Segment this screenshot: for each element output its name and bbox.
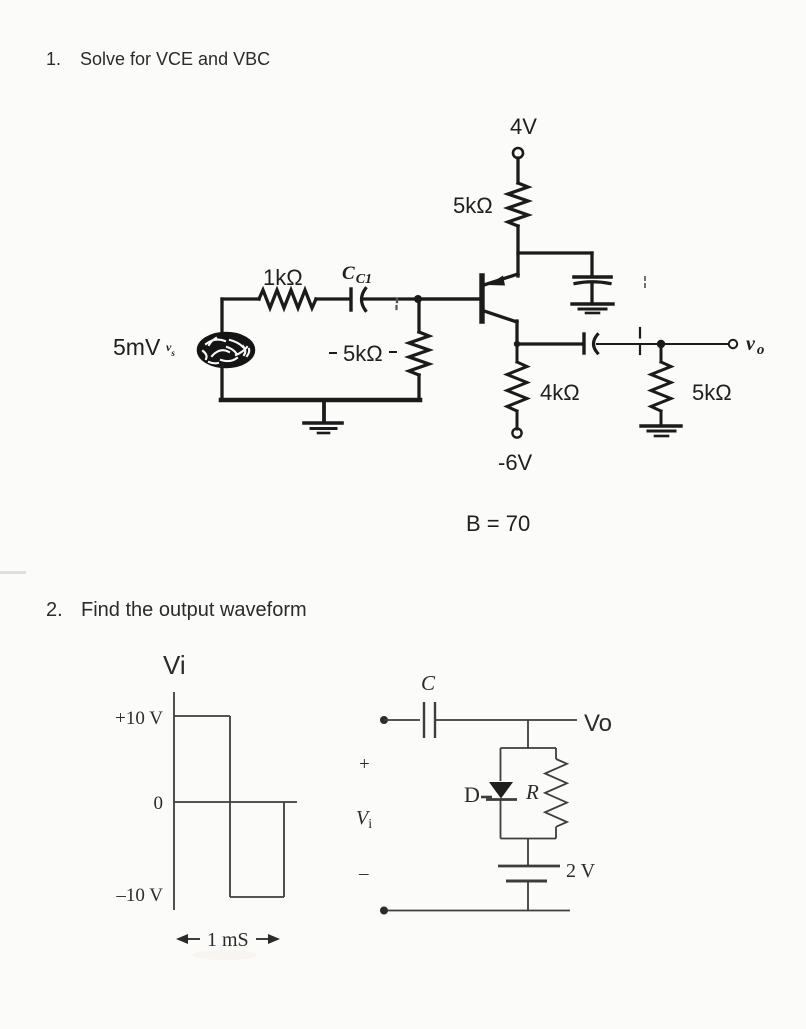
box left (diode branch) <box>500 748 502 781</box>
wire emitter to coupling cap <box>517 342 583 345</box>
arrow right <box>256 938 276 940</box>
axis zero line <box>174 801 297 803</box>
wire bottom rail <box>384 910 570 912</box>
svg-text:R: R <box>525 780 539 804</box>
junction emitter node <box>514 341 520 347</box>
svg-text:4V: 4V <box>510 114 537 139</box>
wire down to bypass cap <box>590 253 593 276</box>
faint smudge bottom <box>193 950 257 960</box>
wire cap CC1 to base node <box>364 297 482 300</box>
ground below bypass cap <box>572 302 613 305</box>
capacitor CE bypass top plate <box>574 275 611 279</box>
wire battery to rail <box>527 881 529 911</box>
capacitor CE bypass bottom plate <box>575 282 610 284</box>
box bottom <box>501 838 557 840</box>
capacitor CC1 left plate <box>349 289 352 310</box>
waveform +10 segment <box>174 715 230 717</box>
wire bottom rail <box>221 398 420 403</box>
svg-text:5mV: 5mV <box>113 334 161 360</box>
svg-text:1 mS: 1 mS <box>207 929 249 951</box>
junction base node <box>414 295 422 303</box>
capacitor CC2 left plate <box>582 334 585 353</box>
svg-text:4kΩ: 4kΩ <box>540 380 580 405</box>
wire box to battery <box>527 839 529 866</box>
waveform -10 segment <box>230 896 284 898</box>
terminal -6V <box>512 428 521 437</box>
svg-text:1.Solve for VCE and VBC: 1.Solve for VCE and VBC <box>46 49 270 69</box>
resistor R zigzag <box>545 759 567 827</box>
transistor Q1 base bar <box>479 276 484 321</box>
resistor RS 1k (horizontal) <box>259 290 316 308</box>
box top <box>501 747 557 749</box>
transistor Q1 collector diagonal <box>484 274 518 285</box>
svg-text:D: D <box>464 782 480 807</box>
wire cap to ground <box>590 284 593 303</box>
svg-text:5kΩ: 5kΩ <box>692 380 732 405</box>
wire stem to box <box>527 720 529 748</box>
capacitor C left plate <box>423 702 425 738</box>
battery 2V long plate <box>498 865 560 868</box>
source VS scribbled ellipse <box>198 333 255 368</box>
svg-text:Vi: Vi <box>163 650 186 680</box>
faint scan streak left edge <box>0 571 26 574</box>
capacitor CC2 right plate (curved) <box>594 335 598 354</box>
diode D cathode bar <box>486 798 517 801</box>
artifact dots <box>396 299 398 302</box>
svg-text:+10 V: +10 V <box>115 708 163 729</box>
diode D triangle <box>489 782 513 799</box>
ground input loop <box>304 421 342 425</box>
resistor RL 5k <box>660 344 663 362</box>
svg-text:5kΩ: 5kΩ <box>343 341 383 366</box>
wire input to cap <box>384 719 420 721</box>
svg-text:-6V: -6V <box>498 450 533 475</box>
box right with resistor R <box>555 748 557 759</box>
resistor RC 5k (vertical) <box>508 183 528 226</box>
terminal 4V <box>513 148 523 158</box>
transistor Q1 emitter diagonal <box>484 311 517 322</box>
resistor RE 4k <box>516 344 519 362</box>
dash artifacts around label <box>330 352 336 354</box>
wire collector node to bypass cap <box>518 251 592 254</box>
dashed plate artifact <box>639 328 641 338</box>
resistor RB 5k (vertical shunt) <box>417 299 420 332</box>
svg-text:+: + <box>359 754 370 775</box>
artifact colon mark <box>644 277 646 280</box>
waveform falling edge <box>229 716 231 897</box>
wire source top <box>220 299 223 331</box>
battery 2V short plate <box>506 880 547 883</box>
axis vertical <box>173 692 175 910</box>
wire base <box>419 297 480 300</box>
terminal vo <box>729 340 737 348</box>
wire RC bottom to collector node <box>516 226 519 276</box>
wire cap to Vo <box>435 719 577 721</box>
capacitor CC1 right plate (curved) <box>362 289 366 311</box>
node input dot <box>380 716 388 724</box>
svg-text:1kΩ: 1kΩ <box>263 265 303 290</box>
junction output node <box>657 340 665 348</box>
wire emitter down <box>515 321 518 344</box>
wire cap CC2 to output node <box>597 343 728 345</box>
wire 4V terminal to RC top <box>516 158 519 183</box>
svg-text:2 V: 2 V <box>566 860 596 882</box>
svg-text:0: 0 <box>154 793 164 814</box>
svg-text:5kΩ: 5kΩ <box>453 193 493 218</box>
arrow left <box>180 938 200 940</box>
capacitor C right plate <box>434 702 436 738</box>
ground below RL <box>641 424 681 427</box>
svg-text:Vo: Vo <box>584 710 612 737</box>
wire ground stem <box>322 400 326 422</box>
wire source bottom <box>220 365 223 400</box>
svg-text:B = 70: B = 70 <box>466 511 530 536</box>
wire resistor to cap CC1 <box>316 297 350 300</box>
transistor Q1 arrow (on upper lead, pointing to base bar) <box>488 276 505 286</box>
svg-text:–10 V: –10 V <box>115 885 163 906</box>
svg-text:C: C <box>421 671 436 695</box>
node bottom dot <box>380 907 388 915</box>
svg-text:–: – <box>358 863 369 884</box>
wire input loop top <box>222 297 259 300</box>
svg-text:2.Find the output waveform: 2.Find the output waveform <box>46 599 307 621</box>
waveform rising edge <box>283 802 285 897</box>
